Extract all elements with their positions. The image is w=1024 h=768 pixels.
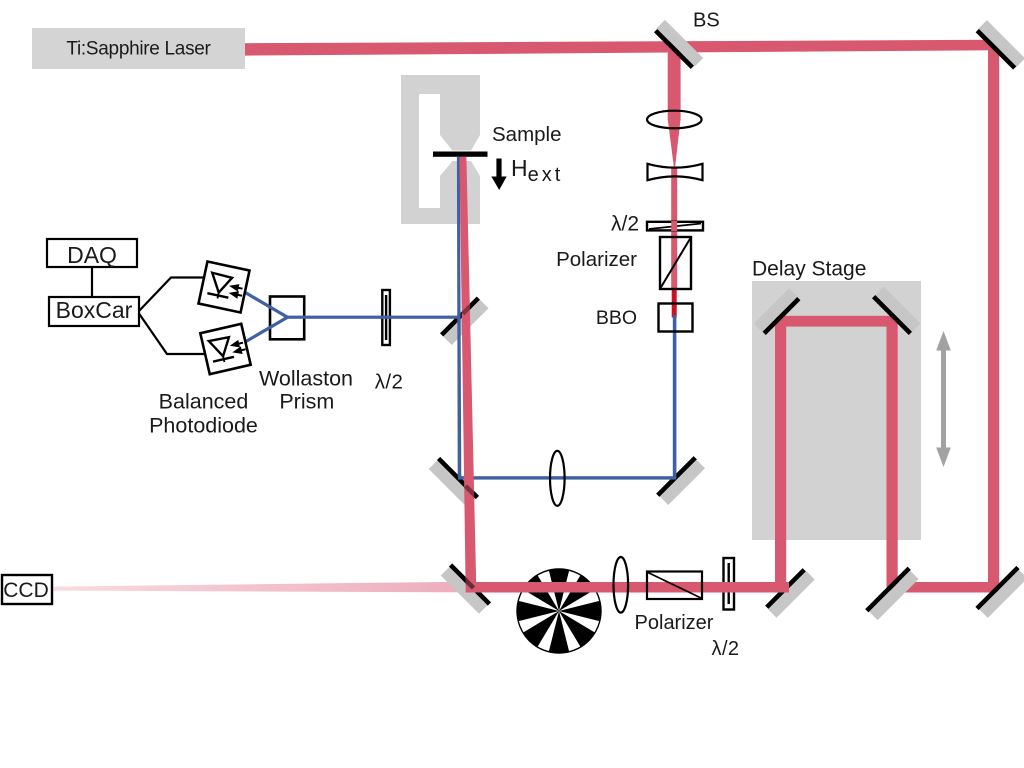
svg-text:BS: BS	[693, 10, 720, 32]
mirror probe pickoff to detection	[440, 296, 489, 345]
Ti:Sapphire laser box	[32, 28, 245, 69]
delay stage box	[752, 281, 921, 540]
svg-text:Photodiode: Photodiode	[149, 414, 258, 438]
wire DAQ to BoxCar	[91, 267, 93, 297]
wire bottom beam right segment	[890, 582, 998, 593]
svg-text:BBO: BBO	[596, 307, 637, 329]
BoxCar box	[49, 297, 139, 326]
lens concave	[648, 164, 703, 180]
svg-text:CCD: CCD	[3, 579, 49, 602]
sample holder bar	[433, 152, 488, 157]
mirror bottom middle	[865, 567, 919, 621]
photodiode lower	[200, 324, 250, 374]
wire faint beam to CCD	[52, 582, 473, 593]
svg-text:Polarizer: Polarizer	[556, 248, 637, 271]
mirror delay stage top left	[754, 288, 801, 335]
svg-text:Delay Stage: Delay Stage	[752, 258, 866, 281]
mirror top right	[975, 20, 1024, 70]
waveplate lambda/2 pump	[647, 221, 703, 231]
Wollaston prism	[270, 297, 304, 340]
wire BoxCar to lower photodiode	[139, 314, 205, 355]
wire blue beam BBO down	[673, 315, 677, 478]
electromagnet yoke	[401, 75, 480, 224]
wire focusing taper below pump lens	[668, 119, 681, 172]
lens probe horizontal	[550, 451, 565, 506]
wire far right vertical beam	[988, 40, 999, 592]
wire red beam polarizer to BBO	[672, 289, 677, 318]
wire blue probe vertical to sample	[457, 157, 461, 477]
svg-text:Sample: Sample	[492, 123, 562, 146]
svg-text:Ti:Sapphire Laser: Ti:Sapphire Laser	[66, 39, 211, 60]
polarizer bottom	[647, 572, 702, 600]
wire pump beam up to sample	[460, 157, 477, 593]
mirror probe right turn	[656, 456, 705, 505]
wire delay stage top beam	[776, 316, 893, 327]
wire delay stage right arm	[887, 319, 898, 590]
svg-text:DAQ: DAQ	[67, 242, 117, 268]
DAQ box	[47, 239, 137, 267]
waveplate lambda/2 probe detection	[380, 290, 392, 345]
arrow H ext	[491, 159, 506, 191]
wire blue split beams in prism	[244, 292, 288, 343]
lens pump focusing	[647, 111, 702, 129]
mirror line seen through beam	[465, 579, 474, 588]
arrow delay stage travel	[936, 331, 951, 467]
svg-text:BoxCar: BoxCar	[56, 297, 133, 323]
wire laser to BS to right mirror (top beam)	[245, 40, 997, 56]
chopper wheel	[517, 569, 601, 653]
svg-text:Prism: Prism	[279, 390, 334, 414]
waveplate lambda/2 bottom	[722, 558, 736, 610]
wire blue beam horizontal lower	[458, 476, 676, 479]
BBO crystal	[659, 304, 693, 332]
CCD box	[2, 575, 52, 604]
mirror probe turn-up	[428, 457, 479, 508]
svg-text:Balanced: Balanced	[159, 390, 249, 414]
mirror below delay stage left arm	[765, 568, 815, 618]
svg-text:λ/2: λ/2	[712, 638, 740, 660]
mirror bottom right	[975, 566, 1024, 619]
svg-text:Wollaston: Wollaston	[259, 367, 353, 391]
mirror BS	[653, 20, 703, 70]
svg-text:Polarizer: Polarizer	[635, 612, 714, 634]
wire delay stage left arm	[775, 319, 786, 590]
mirror line seen through beam	[463, 306, 471, 314]
wire BS down beam	[668, 46, 681, 120]
wire BoxCar to upper photodiode	[139, 278, 204, 312]
svg-text:λ/2: λ/2	[375, 371, 404, 394]
mirror delay stage top right	[872, 287, 920, 335]
wire narrow pump beam to polarizer	[671, 168, 677, 290]
mirror line seen through beam	[466, 486, 477, 497]
wire blue beam to Wollaston prism	[287, 316, 460, 319]
photodiode upper	[198, 261, 249, 312]
mirror CCD pickoff	[440, 563, 491, 614]
polarizer pump	[660, 237, 691, 289]
svg-text:λ/2: λ/2	[611, 213, 639, 236]
lens chopper line	[614, 557, 629, 613]
wire bottom beam left segment	[467, 582, 789, 593]
